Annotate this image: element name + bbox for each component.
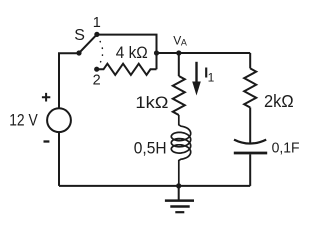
svg-text:12 V: 12 V [9, 111, 38, 129]
node bottom junction [176, 183, 181, 188]
ground bars [165, 199, 194, 202]
resistor 4k [97, 64, 157, 75]
resistor 2k [244, 68, 256, 107]
switch throw arc (dotted) [100, 42, 102, 62]
svg-text:1: 1 [93, 15, 101, 31]
svg-text:4 kΩ: 4 kΩ [116, 44, 148, 62]
svg-text:0,1F: 0,1F [272, 141, 300, 157]
resistor 1k [173, 76, 185, 115]
wire VA down [178, 53, 180, 76]
wire left rail top [59, 53, 79, 108]
svg-text:1kΩ: 1kΩ [135, 94, 168, 112]
wire right branch top [249, 53, 251, 68]
node junction top [154, 50, 159, 55]
switch terminal 1 [94, 32, 99, 37]
switch terminal 2 [94, 67, 99, 72]
svg-text:S: S [74, 27, 85, 44]
svg-text:1: 1 [208, 71, 215, 85]
inductor 0.5H [171, 115, 190, 186]
current arrow I1 [195, 62, 197, 82]
minus sign [44, 140, 50, 142]
svg-text:0,5H: 0,5H [134, 140, 167, 158]
capacitor 0.1F curved plate [234, 140, 266, 144]
wire bottom rail [59, 185, 250, 187]
plus sign [42, 93, 50, 102]
node VA junction [176, 50, 181, 55]
svg-text:2: 2 [93, 73, 101, 89]
capacitor 0.1F straight plate [234, 152, 267, 155]
switch S arm [79, 34, 97, 53]
ground stub [178, 186, 180, 200]
wire top from terminal 1 [97, 35, 157, 70]
voltage source 12V [47, 108, 71, 132]
wire left rail bottom [58, 132, 60, 186]
wire top rail [157, 52, 251, 54]
wire capacitor to bottom [249, 154, 251, 186]
svg-text:A: A [181, 37, 187, 47]
switch pivot junction [76, 50, 81, 55]
wire 2k to capacitor [249, 108, 251, 144]
svg-text:2kΩ: 2kΩ [264, 91, 294, 111]
